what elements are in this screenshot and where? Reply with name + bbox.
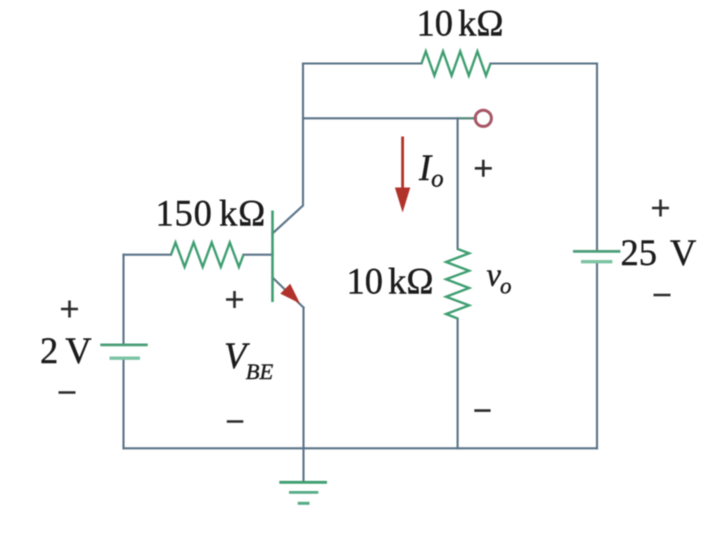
svg-text:10 kΩ: 10 kΩ	[347, 261, 434, 302]
svg-text:VBE: VBE	[224, 335, 274, 384]
svg-text:2 V: 2 V	[40, 330, 92, 371]
svg-text:Io: Io	[418, 147, 444, 193]
svg-text:10 kΩ: 10 kΩ	[417, 3, 504, 44]
svg-text:150 kΩ: 150 kΩ	[156, 193, 267, 234]
svg-text:vo: vo	[487, 258, 512, 299]
svg-text:25 V: 25 V	[621, 232, 697, 273]
